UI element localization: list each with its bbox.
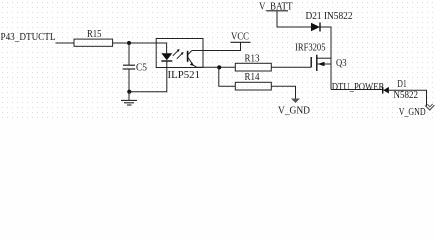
- node DTU_POWER: [332, 82, 385, 93]
- wire P43_DTUCTL to R15: [56, 42, 75, 44]
- resistor R13: [235, 54, 271, 71]
- wire junction down to R14: [219, 67, 236, 86]
- resistor R14: [235, 72, 271, 90]
- wire D1 to V_GND: [389, 90, 427, 107]
- svg-text:IRF3205: IRF3205: [295, 43, 326, 54]
- svg-text:ILP521: ILP521: [168, 70, 201, 81]
- op-amp U? optocoupler ILP521 box: [156, 39, 203, 81]
- wire C5 to ground rail: [128, 69, 130, 92]
- svg-text:V_GND: V_GND: [278, 106, 310, 117]
- wire junction to C5: [128, 43, 130, 65]
- node P43_DTUCTL: [1, 32, 56, 43]
- wire collector to VCC: [192, 42, 241, 50]
- diode LED inside ILP521: [161, 53, 172, 61]
- wire bottom rail to LED cathode: [129, 61, 167, 92]
- svg-text:R13: R13: [245, 54, 260, 65]
- wire Q3 source to DTU_POWER: [331, 89, 383, 91]
- wire R15 to optocoupler LED: [113, 43, 167, 53]
- node junction C5/ground: [127, 90, 131, 94]
- svg-text:DTU_POWER: DTU_POWER: [332, 82, 385, 93]
- wire D21 to Q3 drain: [320, 27, 331, 90]
- diode D1 N5822: [383, 79, 418, 101]
- ground V_GND (bottom right): [399, 104, 435, 118]
- svg-text:C5: C5: [136, 62, 147, 73]
- power VCC: [231, 32, 251, 43]
- transistor Q3 IRF3205: [295, 43, 347, 72]
- resistor R15: [74, 29, 113, 46]
- svg-text:Q3: Q3: [336, 58, 347, 69]
- power V_BATT: [259, 1, 293, 12]
- svg-text:D1: D1: [397, 79, 407, 90]
- wire V_BATT to D21: [277, 11, 311, 27]
- wire R14 to V_GND: [271, 86, 295, 98]
- ground V_GND (under R14): [278, 99, 310, 117]
- node junction R15/C5: [127, 41, 131, 45]
- svg-text:VCC: VCC: [231, 32, 249, 43]
- LED light arrow 1: [173, 49, 180, 56]
- svg-text:V_GND: V_GND: [399, 107, 426, 118]
- transistor phototransistor of ILP521: [188, 51, 197, 68]
- svg-text:R15: R15: [87, 29, 102, 40]
- svg-text:N5822: N5822: [394, 90, 419, 101]
- svg-text:P43_DTUCTL: P43_DTUCTL: [1, 32, 56, 43]
- diode D21 IN5822: [306, 11, 353, 32]
- capacitor C5: [123, 62, 147, 73]
- svg-text:R14: R14: [245, 72, 260, 83]
- wire emitter rail to R13: [197, 66, 235, 68]
- wire R13 to Q3 gate: [271, 66, 311, 68]
- svg-text:D21 IN5822: D21 IN5822: [306, 11, 353, 22]
- node junction R13/R14: [217, 65, 221, 69]
- ground: [121, 92, 137, 105]
- LED light arrow 2: [177, 52, 184, 59]
